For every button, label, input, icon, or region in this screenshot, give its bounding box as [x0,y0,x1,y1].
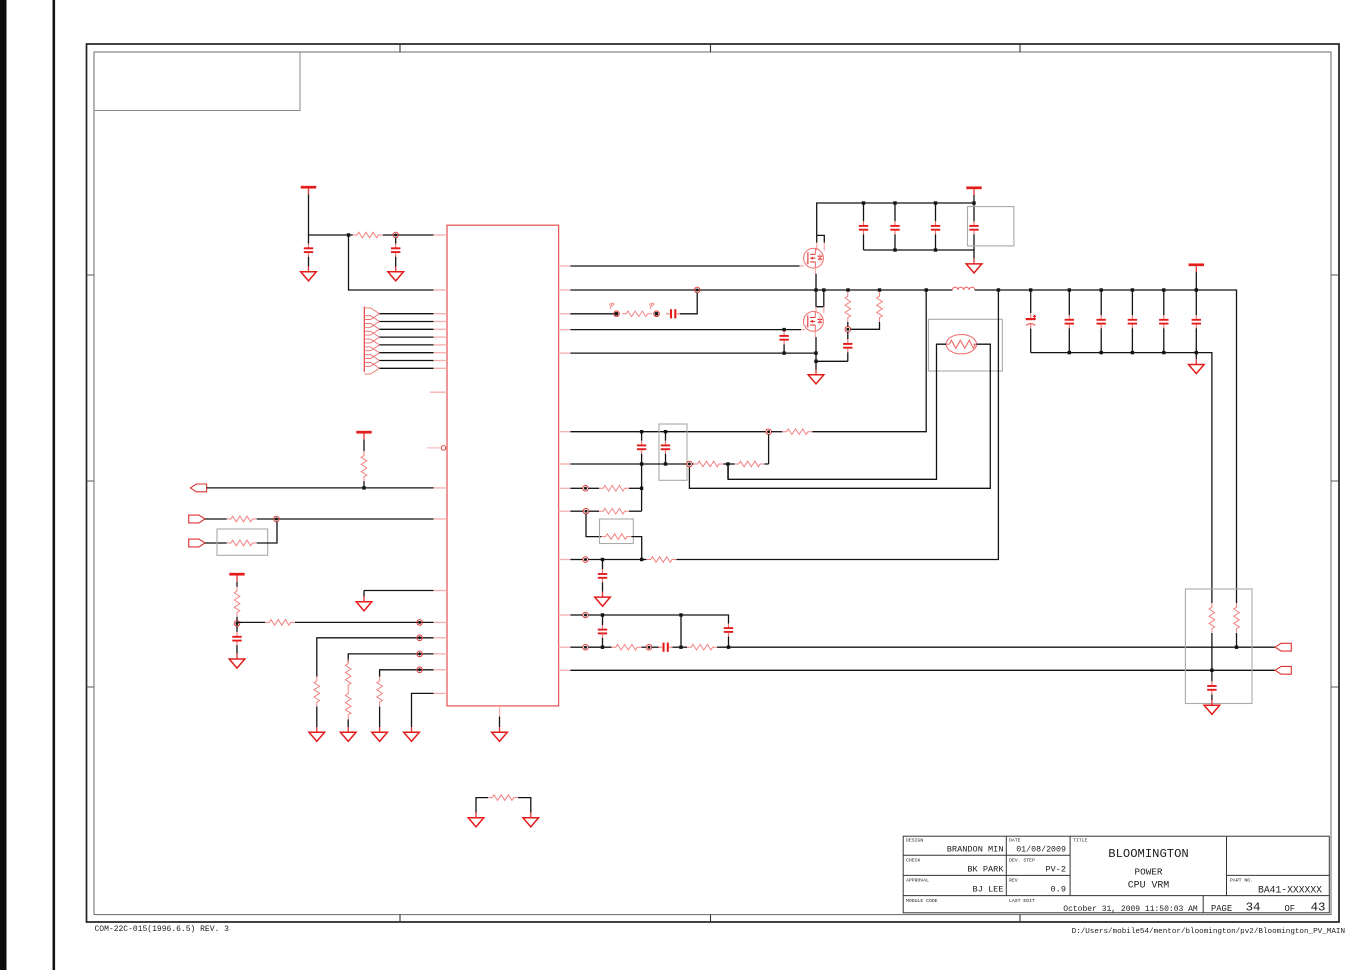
wire [602,582,604,591]
wire [1068,290,1070,315]
wire [935,203,937,221]
junction [822,288,825,291]
resistor R16 [693,461,723,467]
wire comp row B [570,463,686,465]
resistor R20 [601,534,631,540]
svg-text:MODULE CODE: MODULE CODE [906,898,938,904]
controller IC U1 [447,225,559,706]
junction [997,288,1000,291]
node [417,620,423,626]
resistor R6 [265,620,295,626]
wire VCC1 node [309,194,353,235]
wire [642,646,647,648]
wire [692,463,694,465]
node H [583,508,589,514]
node D [845,327,851,333]
node [417,651,423,657]
wire temp sense B [689,344,990,488]
capacitor C3 [232,632,241,645]
junction [347,233,350,236]
wire comp row A [570,431,765,433]
node L [646,644,652,650]
capacitor C10 [843,339,852,352]
node I [583,557,589,563]
frame tick [399,44,401,52]
junction [679,613,682,616]
wire [379,707,381,727]
highlight box R20 [600,519,634,544]
capacitor C23 [1207,681,1216,694]
resistor R4 [227,540,257,546]
wire [295,621,434,623]
wire [236,617,238,632]
wire [665,432,667,441]
wire [1131,328,1133,352]
wire [847,332,849,339]
wire [395,238,397,244]
junction [1162,288,1165,291]
wire [894,234,896,250]
junction [601,646,604,649]
resistor R10 [377,677,383,707]
node ring [614,311,620,317]
svg-text:COM-22C-015(1996.6.5) REV. 3: COM-22C-015(1996.6.5) REV. 3 [95,925,230,934]
junction [640,487,643,490]
wire [1163,290,1165,315]
bus ripper 8 [364,363,379,375]
frame tick [87,274,95,276]
svg-text:PV-2: PV-2 [1045,864,1066,874]
svg-text:34: 34 [1246,901,1261,915]
wire [1211,670,1213,681]
wire [771,431,782,433]
ground [1189,359,1205,373]
capacitor C16 output [1192,315,1201,328]
wire [347,719,349,727]
wire [631,537,641,560]
svg-text:CPU VRM: CPU VRM [1128,880,1170,891]
wire gate drive low [570,329,801,331]
wire [363,591,365,597]
wire [1236,633,1238,647]
wire vertical comp [641,464,643,511]
wire vsense+ [717,646,1275,648]
highlight box R4 [217,529,268,555]
pin stub U1 pad [499,706,501,717]
wire [973,234,975,250]
connector input 2 [189,539,205,547]
junction [893,248,896,251]
wire PGOOD [207,487,434,489]
wire RT select 2 [348,654,433,662]
wire [316,707,318,727]
wire Q2 source [815,337,817,370]
wire [847,352,849,361]
wire AGND pin [364,590,434,592]
wire [308,235,310,244]
resistor R3 [227,516,257,522]
junction [615,312,618,315]
junction [846,288,849,291]
frame tick [1331,480,1339,482]
wire [1030,328,1032,352]
junction [925,288,928,291]
wire [1211,633,1213,670]
connector PGOOD out [190,484,206,492]
wire [308,257,310,267]
svg-text:APPROVAL: APPROVAL [906,878,929,884]
frame tick [710,44,712,52]
svg-text:DEV. STEP: DEV. STEP [1009,858,1035,864]
capacitor C14 output [1128,315,1137,328]
wire [641,432,643,441]
wire [680,615,682,647]
frame tick [399,915,401,922]
capacitor C20 [598,625,607,638]
wire to U1 pin VCC [349,235,434,290]
ground [966,259,982,273]
junction [362,486,365,489]
bus ripper 1 [364,308,379,320]
transistor Q2 low side [804,312,824,332]
node J [583,612,589,618]
bus ripper 5 [364,339,379,351]
wire bus bit 1 [380,321,434,323]
wire bus bit 2 [380,328,434,330]
junction [1100,351,1103,354]
junction [664,462,667,465]
wire [816,360,848,362]
resistor R23 [687,644,717,650]
wire [641,454,643,464]
wire [1211,694,1213,700]
wire PGND [412,693,434,727]
wire [363,440,365,452]
wire comp row F [570,614,582,616]
wire [518,798,531,813]
wire [1195,290,1197,315]
capacitor C12 output [1065,315,1074,328]
frame tick [87,480,95,482]
capacitor C18 [661,441,670,454]
frame tick [710,915,712,922]
node [417,667,423,673]
highlight box C18 [659,424,687,480]
junction [664,430,667,433]
left fold line [53,0,56,970]
svg-text:October 31, 2009 11:50:03 AM: October 31, 2009 11:50:03 AM [1063,905,1198,914]
resistor R14 [877,292,883,322]
power VCC2 [356,432,371,439]
svg-text:BRANDON MIN: BRANDON MIN [947,845,1004,855]
ground [523,813,539,827]
resistor R13 [845,292,851,322]
ground [1204,700,1220,714]
wire drain jog Q1 [817,235,825,242]
ground [595,592,611,606]
wire [652,646,659,648]
junction [878,288,881,291]
wire [602,560,604,570]
wire [768,435,770,465]
wire Q2 drain [816,290,824,307]
resistor R18 [599,486,629,492]
wire vcore sense [676,290,998,560]
node [417,635,423,641]
revision box [94,52,300,111]
connector input 1 [189,515,205,523]
wire [1068,328,1070,352]
wire [1195,328,1197,352]
junction [934,248,937,251]
node A [393,232,399,238]
wire VCORE rail [975,290,1237,603]
wire comp row E [570,559,582,561]
junction [814,351,817,354]
frame tick [87,686,95,688]
wire [257,522,277,544]
node G [583,486,589,492]
connector VSENSE- [1275,666,1291,674]
junction [640,462,643,465]
capacitor C11 bulk [1026,314,1036,328]
resistor R22 [612,644,642,650]
capacitor C13 output [1097,315,1106,328]
wire to phase [812,290,926,432]
svg-text:REV: REV [1009,878,1018,884]
highlight box sense [1185,589,1252,704]
wire output return [1031,353,1212,603]
capacitor C6 input [859,221,868,234]
bus ripper 7 [364,355,379,367]
junction [814,360,817,363]
wire [765,463,769,465]
wire [1100,328,1102,352]
capacitor C22 [659,643,673,652]
connector VSENSE+ [1275,643,1291,651]
wire bus bit 7 [380,367,434,369]
wire [783,330,785,332]
junction [782,328,785,331]
svg-text:CHECK: CHECK [906,858,921,864]
resistor R8 [345,659,351,689]
wire [851,322,880,329]
wire bus bit 6 [380,360,434,362]
wire comp row D [570,510,583,512]
wire RT select 1 [317,638,434,677]
node K [583,644,589,650]
svg-text:43: 43 [1311,900,1326,914]
node B [274,516,280,522]
junction [726,462,729,465]
junction [782,351,785,354]
wire comp row G [570,646,582,648]
wire [205,542,227,544]
junction [679,646,682,649]
capacitor C9 input [969,221,978,234]
node ring [654,311,660,317]
ground [356,597,372,611]
junction [893,201,896,204]
wire vsense- [570,669,1275,671]
wire [1163,328,1165,352]
wire bus bit 4 [380,344,434,346]
wire [1030,290,1032,313]
junction [640,558,643,561]
junction [1131,351,1134,354]
junction [601,613,604,616]
capacitor C19 [598,569,607,582]
wire [499,717,501,728]
bus ripper 2 [364,316,379,328]
wire [935,234,937,250]
resistor R19 [599,508,629,514]
junction [1100,288,1103,291]
junction [814,288,817,291]
svg-text:TITLE: TITLE [1073,838,1088,844]
wire [973,203,975,221]
bus ripper 4 [364,331,379,343]
bus ripper 6 [364,347,379,359]
wire boot [570,313,616,315]
junction [655,312,658,315]
power VIN [966,188,981,195]
power VCC1 [301,187,316,194]
junction [1029,288,1032,291]
svg-text:POWER: POWER [1135,867,1163,878]
wire [589,510,599,512]
svg-text:01/08/2009: 01/08/2009 [1016,845,1066,855]
junction [934,201,937,204]
pin node [427,446,446,451]
capacitor C8 input [931,221,940,234]
wire [973,195,975,203]
power VCC3 [229,574,244,581]
transistor Q1 high side [804,248,824,268]
resistor R11 [488,795,518,801]
inductor L1 [952,287,974,290]
resistor R5 [234,587,240,617]
wire VIN rail [817,203,974,235]
resistor R2 [361,451,367,481]
junction [1235,646,1238,649]
resistor R12 [622,311,652,317]
wire Q1 source to phase [815,274,817,290]
wire [728,637,730,648]
wire [894,203,896,221]
resistor R7 [314,677,320,707]
capacitor C2 [391,244,400,257]
resistor R15 [782,429,812,435]
frame tick [1331,686,1339,688]
wire [1195,272,1197,290]
wire [476,798,488,813]
svg-text:OF: OF [1285,904,1296,914]
ground [372,727,388,741]
ground [468,813,484,827]
node F [687,461,693,467]
wire [1100,290,1102,315]
svg-text:BK PARK: BK PARK [967,864,1004,874]
wire bus bit 3 [380,336,434,338]
ground [808,370,824,384]
svg-text:0.9: 0.9 [1051,884,1066,894]
ground [309,727,325,741]
svg-text:BJ LEE: BJ LEE [973,884,1004,894]
wire [236,645,238,654]
frame tick [1331,274,1339,276]
node C [234,621,240,627]
resistor R1 [353,232,383,238]
capacitor C4 boot [666,309,680,318]
ground [229,654,245,668]
wire [257,518,434,520]
wire [586,514,601,537]
bus rail [363,307,365,373]
frame tick [1019,915,1021,922]
capacitor C5 [779,331,788,344]
capacitor C7 input [890,221,899,234]
wire [723,463,735,465]
junction [862,201,865,204]
junction [1162,351,1165,354]
svg-text:DESIGN: DESIGN [906,838,923,844]
wire [727,464,729,479]
ground [404,727,420,741]
resistor R25 [1234,603,1240,633]
left margin black bar [0,0,7,970]
wire [847,322,849,327]
wire phase node [570,289,952,291]
wire [673,646,688,648]
unconnected pin stub [430,391,447,393]
wire [602,615,604,625]
resistor R24 [1209,603,1215,633]
wire [1131,290,1133,315]
svg-text:PAGE: PAGE [1211,904,1232,914]
wire [816,235,818,242]
svg-text:DATE: DATE [1009,838,1021,844]
capacitor C17 [637,441,646,454]
junction [640,430,643,433]
wire [237,621,265,623]
wire [863,234,865,250]
junction [1131,288,1134,291]
ground [492,727,508,741]
power VCORE flag [1189,265,1204,272]
capacitor C21 [724,624,733,637]
wire bus bit 0 [380,313,434,315]
wire bus bit 5 [380,352,434,354]
junction [1195,288,1198,291]
resistor R21 [646,557,676,563]
node phase tap [694,287,700,293]
ground [301,267,317,281]
wire gate drive high [570,265,799,267]
resistor R9 [345,689,351,719]
wire [680,293,697,314]
wire temp sense A [728,344,946,479]
junction [1068,351,1071,354]
wire [629,510,642,512]
ground [340,727,356,741]
wire [665,454,667,464]
wire [588,615,728,624]
highlight box RT1 [928,319,1002,371]
wire [205,518,227,520]
svg-text:BLOOMINGTON: BLOOMINGTON [1108,847,1188,861]
node E [766,429,772,435]
